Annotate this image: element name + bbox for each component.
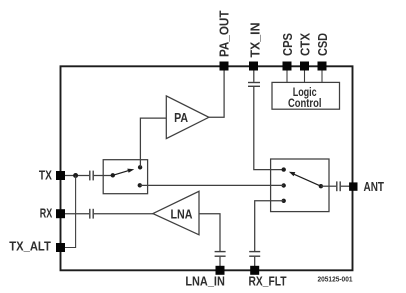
wire cap to ANT pad bbox=[341, 185, 350, 187]
svg-text:CPS: CPS bbox=[280, 33, 295, 56]
svg-text:RX: RX bbox=[40, 205, 53, 220]
pad RX_FLT bbox=[250, 266, 259, 275]
block Logic Control bbox=[272, 82, 340, 110]
switch SW1 pole contact bbox=[111, 173, 115, 177]
svg-text:PA_OUT: PA_OUT bbox=[217, 10, 232, 57]
wire TX_ALT riser bbox=[61, 176, 76, 248]
wire CTX to logic bbox=[304, 71, 306, 83]
wire CSD to logic bbox=[321, 71, 323, 83]
svg-text:PA: PA bbox=[174, 110, 188, 125]
wire cap to LNA_IN pad bbox=[219, 257, 221, 267]
switch SW1 throw to PA bbox=[138, 165, 142, 169]
svg-text:RX_FLT: RX_FLT bbox=[249, 273, 287, 288]
module outline box bbox=[61, 66, 353, 270]
pad TX_ALT bbox=[56, 243, 65, 252]
capacitor RX_FLT blocking bbox=[249, 252, 260, 257]
wire TX_IN to cap bbox=[253, 71, 255, 82]
capacitor ANT blocking bbox=[337, 181, 340, 191]
wire cap to RX_FLT pad bbox=[254, 257, 256, 267]
switch SW2 (antenna select) box bbox=[271, 159, 329, 212]
wire TX_IN cap to SW2 top contact bbox=[254, 87, 284, 170]
switch SW2 wiper arrow bbox=[289, 172, 321, 186]
switch SW1 wiper arrow bbox=[113, 169, 135, 176]
node TX junction bbox=[73, 173, 78, 178]
pad CTX bbox=[300, 62, 309, 71]
pad TX bbox=[56, 171, 65, 180]
svg-text:LNA: LNA bbox=[171, 207, 194, 222]
pad PA_OUT bbox=[220, 62, 229, 71]
svg-text:TX: TX bbox=[39, 168, 52, 183]
wire PA output to PA_OUT pad bbox=[209, 67, 224, 117]
switch SW2 contact TX_IN bbox=[282, 167, 286, 171]
svg-text:TX_ALT: TX_ALT bbox=[9, 238, 51, 253]
op-amp LNA bbox=[153, 191, 199, 235]
switch SW1 throw bypass bbox=[138, 183, 142, 187]
svg-text:Control: Control bbox=[288, 96, 322, 110]
wire SW1 to PA input bbox=[140, 118, 166, 167]
svg-text:LNA_IN: LNA_IN bbox=[185, 273, 225, 288]
wire LNA input to cap bbox=[199, 214, 220, 251]
pad TX_IN bbox=[249, 62, 258, 71]
pad ANT bbox=[349, 182, 357, 190]
svg-text:CTX: CTX bbox=[298, 33, 313, 56]
pad CPS bbox=[283, 62, 292, 71]
wire bypass (SW1 to SW2) bbox=[140, 184, 284, 186]
wire SW2 pole to ANT cap bbox=[321, 185, 336, 187]
capacitor TX blocking bbox=[90, 171, 93, 181]
wire CPS to logic bbox=[286, 71, 288, 83]
wire cap to TX switch pole bbox=[94, 175, 113, 177]
switch SW2 pole contact bbox=[319, 184, 323, 188]
switch SW1 (TX select) box bbox=[103, 160, 147, 194]
wire SW2 to RX_FLT cap bbox=[255, 201, 284, 251]
wire cap to LNA output bbox=[94, 213, 153, 215]
svg-text:205125-001: 205125-001 bbox=[318, 274, 354, 283]
pad CSD bbox=[318, 62, 327, 71]
switch SW2 contact bypass bbox=[282, 183, 286, 187]
capacitor RX blocking bbox=[90, 209, 93, 219]
wire TX input bbox=[61, 175, 89, 177]
svg-text:ANT: ANT bbox=[364, 179, 385, 194]
svg-text:TX_IN: TX_IN bbox=[247, 23, 262, 58]
pad RX bbox=[56, 209, 65, 218]
pad LNA_IN bbox=[216, 266, 225, 275]
capacitor LNA_IN blocking bbox=[215, 252, 226, 257]
wire RX output bbox=[61, 213, 89, 215]
svg-text:CSD: CSD bbox=[315, 33, 330, 56]
switch SW2 contact RX_FLT bbox=[282, 199, 286, 203]
op-amp PA bbox=[166, 96, 209, 139]
capacitor TX_IN blocking bbox=[248, 83, 260, 87]
